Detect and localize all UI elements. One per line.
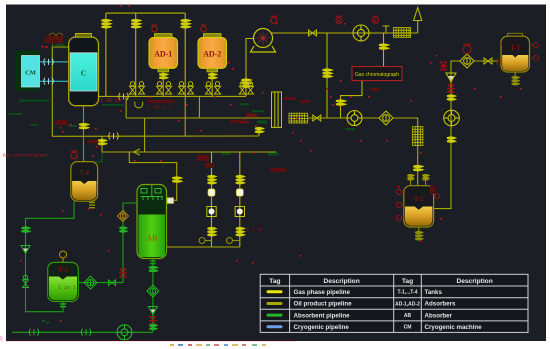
absorber AB xyxy=(137,185,167,259)
wire manifold drop x=106 xyxy=(105,13,107,96)
red instrument left of corner xyxy=(440,62,448,70)
wire C side line to middle bus xyxy=(52,47,68,136)
separator column xyxy=(272,92,282,127)
valve after E2 xyxy=(313,115,321,121)
wire C condensate to T-4 xyxy=(83,106,85,162)
valves below AD-1 xyxy=(159,74,167,79)
diamond filter T-3 inlet xyxy=(84,276,97,289)
svg-text:1 1 N: 1 1 N xyxy=(246,227,261,233)
svg-text:CM: CM xyxy=(404,325,412,331)
wire manifold drop x=185 xyxy=(184,13,186,96)
valve pair on suction at bus xyxy=(239,82,245,94)
pump P3 xyxy=(444,110,460,126)
tank T-2 xyxy=(404,186,434,227)
wire to T-2 riser xyxy=(393,118,418,186)
legend row swatches xyxy=(268,292,281,327)
T-1 side instruments xyxy=(498,43,539,65)
adsorber AD-2 xyxy=(198,34,227,72)
valve on recycle drop xyxy=(323,69,332,77)
wire top-left manifold header xyxy=(106,12,185,14)
legend row text xyxy=(294,289,353,331)
valve stack AB bottoms xyxy=(149,267,157,272)
instrument above T-4 xyxy=(71,151,77,159)
dashes below T-3 xyxy=(60,304,66,307)
bottom margin noise xyxy=(170,344,266,346)
wire T-2 to P3 riser xyxy=(434,61,460,209)
svg-text:AB: AB xyxy=(146,234,158,243)
svg-text:AB: AB xyxy=(404,313,412,319)
valve on condensate line xyxy=(79,124,88,129)
coupling on bottom bus xyxy=(29,329,39,336)
rotameter x=211.5 xyxy=(207,207,216,217)
valve stack upper x=211.5 xyxy=(208,176,216,184)
valve before T-1 xyxy=(484,58,492,64)
svg-text:Tag: Tag xyxy=(269,278,280,285)
svg-text:Oil product pipeline: Oil product pipeline xyxy=(294,301,353,308)
valve on AB feed xyxy=(172,177,181,182)
svg-text:AD-1: AD-1 xyxy=(154,50,172,59)
pump P2 xyxy=(347,111,362,126)
svg-text:Gas chromatograph: Gas chromatograph xyxy=(355,72,399,78)
svg-text:Gas chromatograph: Gas chromatograph xyxy=(3,154,48,159)
instruments above C side line xyxy=(42,33,63,48)
wire AD-2 bottom drop xyxy=(211,72,213,97)
T-2 top nozzles xyxy=(408,180,429,186)
T-2 side instruments xyxy=(396,189,439,220)
svg-text:T-1,..,T-4: T-1,..,T-4 xyxy=(397,290,417,296)
svg-text:T-3: T-3 xyxy=(58,266,68,274)
instruments above discharge header xyxy=(271,16,277,23)
wire adsorber bus y=96.4 xyxy=(99,95,247,97)
valve stack on left draw xyxy=(120,227,127,232)
wire AB feed L from sample bus xyxy=(129,152,176,200)
viewport bottom edge tint xyxy=(6,340,296,341)
noise marks xyxy=(3,98,261,292)
instrument above AD-2 xyxy=(201,25,207,32)
wire E2 to pump xyxy=(308,117,347,119)
valve stack below P3 xyxy=(447,137,455,142)
wire AD-1 bottom drop xyxy=(162,72,164,97)
dashes T-4 drain xyxy=(89,203,95,208)
pump P4 absorbent xyxy=(117,325,132,340)
wire cryogenic supply CM to C xyxy=(40,61,69,63)
valve V-d1 xyxy=(309,30,317,36)
svg-text:Tanks: Tanks xyxy=(425,289,443,296)
valve stack upper x=239.8 xyxy=(236,176,244,184)
svg-text:Tag: Tag xyxy=(402,278,413,285)
filter F2 xyxy=(379,111,393,125)
heat exchanger E1 xyxy=(393,28,410,38)
gas chromatograph xyxy=(352,67,402,81)
svg-text:Absorber: Absorber xyxy=(425,312,453,319)
valve stack lower x=239.8 xyxy=(236,228,244,236)
T-1 drain stub and valves xyxy=(514,72,516,76)
valve on drop x=106 xyxy=(101,20,110,28)
svg-text:Absorbent pipeline: Absorbent pipeline xyxy=(294,312,351,319)
tank T-4 xyxy=(71,162,98,202)
wire absorbent bottom bus y=332.3 xyxy=(12,331,153,333)
adsorber AD-1 xyxy=(149,34,178,72)
wire vent riser and arrow xyxy=(417,21,419,34)
valve pair on drop x=136 at bus xyxy=(130,82,136,94)
wire AB bottoms drop xyxy=(152,259,154,333)
valves below AD-2 xyxy=(208,74,216,79)
rotameter x=239.8 xyxy=(235,207,244,217)
filter F1 to T-1 xyxy=(460,54,474,68)
valve with circle on left riser xyxy=(23,275,29,287)
heat exchanger E3 vertical xyxy=(413,127,423,146)
instrument stub on header xyxy=(383,26,390,33)
sight glass x=239.8 xyxy=(236,189,243,196)
legend table xyxy=(260,274,528,332)
svg-text:1 in 1: 1 in 1 xyxy=(58,285,76,291)
wire compressor discharge header y=33 xyxy=(271,32,418,34)
svg-text:Gas phase pipeline: Gas phase pipeline xyxy=(294,289,351,296)
valve on chromatograph feed xyxy=(379,44,388,49)
valve stack on riser upper xyxy=(447,95,455,100)
svg-text:C: C xyxy=(81,69,86,78)
instrument above AD-1 xyxy=(152,25,158,32)
valve on chromatograph drain xyxy=(336,100,345,105)
wire AB left draw x=123 xyxy=(123,203,137,283)
T-2 drain valves xyxy=(418,227,420,231)
wire compressor suction xyxy=(246,39,254,97)
valves on suction drop xyxy=(242,79,251,87)
wire sample line drop x=239.8 xyxy=(239,152,241,247)
valve on column drain xyxy=(255,128,263,133)
wire branch x=102 with valve xyxy=(101,136,103,152)
coupling cryo supply xyxy=(44,58,54,65)
wire branch x=199.4 xyxy=(198,96,200,118)
pipe hop under bus xyxy=(135,102,143,108)
tank T-1 xyxy=(501,33,530,72)
svg-text:1 AD-1A: 1 AD-1A xyxy=(100,98,121,104)
cryogenic machine CM xyxy=(16,51,41,92)
diamond pump on AB bottoms xyxy=(147,285,159,297)
coupling on bus y=96.4 xyxy=(119,93,129,100)
svg-text:AD-1,AD-2: AD-1,AD-2 xyxy=(395,301,420,307)
wire sample line drop x=211.5 xyxy=(211,152,213,247)
diamond on left draw xyxy=(118,211,129,222)
wire recycle drop x=327 xyxy=(326,33,328,118)
red valve on riser xyxy=(447,85,455,93)
wire cryogenic return CM to C xyxy=(40,80,69,82)
legend header text xyxy=(269,278,492,285)
wire chromatograph drain xyxy=(341,81,363,118)
valve stack lower x=211.5 xyxy=(208,228,216,236)
valve above T-2 xyxy=(413,166,422,171)
wire dark green stub to T-4 xyxy=(92,152,102,162)
wire F1 to T-1 xyxy=(474,60,501,62)
wire branch x=144.6 xyxy=(144,118,146,152)
dashes below AB xyxy=(150,261,156,264)
svg-text:T-2: T-2 xyxy=(414,195,424,203)
funnel sight glass on riser xyxy=(446,73,456,82)
svg-text:Adsorbers: Adsorbers xyxy=(425,301,457,308)
instrument above T-3 xyxy=(60,251,67,262)
cryogenic separator C xyxy=(69,33,99,105)
funnel on AB bottoms xyxy=(148,307,157,315)
T-2 nozzle valves xyxy=(408,175,414,179)
red valve on AB bottoms xyxy=(149,317,157,325)
coupling cryo return xyxy=(44,78,54,85)
wire T-3 bottoms xyxy=(26,302,64,312)
funnel on left riser xyxy=(21,246,30,254)
svg-text:Description: Description xyxy=(323,278,359,285)
sight glass x=211.5 xyxy=(208,189,215,196)
wire manifold drop x=136 xyxy=(135,13,137,96)
wire T-3 inlet y=282.6 xyxy=(78,282,123,284)
red valve on left draw xyxy=(119,269,127,277)
coupling on bus y=136 xyxy=(109,133,119,140)
svg-text:Description: Description xyxy=(456,278,492,285)
pump P1 on discharge header xyxy=(353,25,369,41)
wire main process line y=118 xyxy=(126,117,271,119)
svg-text:Cryogenic machine: Cryogenic machine xyxy=(425,324,483,331)
wire branch x=185.2 extension xyxy=(184,96,186,136)
wire chromatograph feed drop x=383.5 xyxy=(383,33,385,67)
coupling near pump xyxy=(81,329,91,336)
valve stack on left riser xyxy=(22,227,30,232)
svg-text:AD-2: AD-2 xyxy=(203,50,221,59)
AB inlet box xyxy=(167,198,174,204)
noise cluster near column xyxy=(240,114,267,124)
tank T-3 xyxy=(48,262,79,301)
wire left absorbent riser x=25.5 xyxy=(26,201,75,312)
svg-text:L AD-1 t: L AD-1 t xyxy=(148,105,172,111)
svg-text:Cryogenic pipeline: Cryogenic pipeline xyxy=(294,324,350,331)
wire branch x=126.1 xyxy=(125,96,127,118)
heat exchanger E2 xyxy=(289,113,308,123)
svg-text:CM: CM xyxy=(25,70,36,77)
wire AB sample collector y=247 xyxy=(167,246,240,248)
svg-text:T-4: T-4 xyxy=(79,169,89,177)
svg-text:T-1: T-1 xyxy=(510,44,520,52)
valve pair on drop x=185 at bus xyxy=(179,82,185,94)
valve T-3 inlet xyxy=(109,280,116,286)
wire middle bus y=136 xyxy=(52,135,259,137)
valve stack above bottom bus xyxy=(149,325,156,330)
wire pump to filter xyxy=(362,117,379,119)
instrument circles on collector xyxy=(199,238,240,244)
instrument above F1 xyxy=(463,44,471,53)
compressor K1 xyxy=(251,29,276,53)
valve on drop x=136 xyxy=(131,20,140,28)
wire column drain to bus xyxy=(258,127,260,136)
wire sample bus y=152 with flow arrow xyxy=(102,151,276,153)
valve on drop x=185 xyxy=(181,20,190,28)
